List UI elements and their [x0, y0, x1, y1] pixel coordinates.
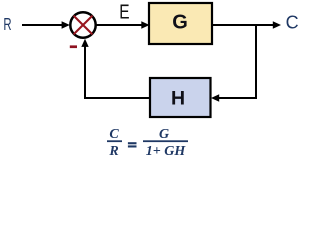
wire R to summing junction: [22, 21, 70, 28]
svg-text:E: E: [119, 1, 129, 23]
wire feedback takeoff node down to block H: [211, 24, 256, 102]
formula C/R = G/(1+GH): [107, 127, 188, 159]
wire summing junction to block G: [96, 21, 150, 28]
minus sign at feedback input: [70, 45, 77, 48]
svg-text:C: C: [109, 127, 119, 142]
svg-text:1+ GH: 1+ GH: [146, 144, 187, 159]
svg-text:C: C: [286, 13, 299, 33]
summing junction: [70, 12, 95, 37]
svg-text:H: H: [171, 87, 185, 109]
svg-text:G: G: [172, 12, 188, 34]
wire block G to output C: [212, 21, 281, 28]
block G (forward path): [149, 3, 212, 44]
svg-text:R: R: [108, 144, 118, 159]
wire block H back to summing junction: [81, 39, 150, 98]
block H (feedback path): [150, 78, 211, 117]
svg-text:G: G: [159, 127, 169, 142]
X mark in summing junction: [74, 16, 92, 34]
svg-text:R: R: [3, 14, 11, 34]
